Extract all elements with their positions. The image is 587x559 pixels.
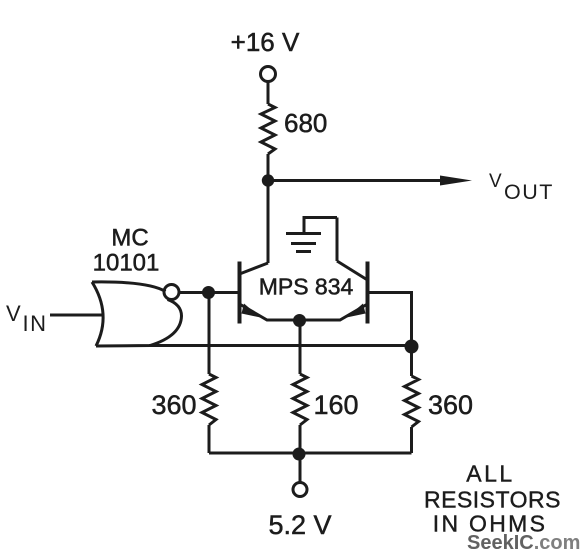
svg-text:360: 360 (428, 390, 473, 420)
svg-text:MPS 834: MPS 834 (259, 274, 354, 300)
svg-text:10101: 10101 (93, 250, 160, 277)
svg-text:OUT: OUT (504, 180, 554, 204)
svg-text:ALL: ALL (466, 461, 514, 487)
svg-text:160: 160 (314, 390, 359, 420)
svg-text:V: V (6, 301, 21, 326)
svg-text:+16 V: +16 V (231, 27, 300, 57)
svg-text:IN: IN (23, 311, 48, 336)
svg-text:680: 680 (284, 108, 327, 138)
svg-text:5.2 V: 5.2 V (268, 510, 331, 540)
svg-text:SeekIC.com: SeekIC.com (467, 532, 580, 554)
svg-text:RESISTORS: RESISTORS (424, 487, 561, 513)
svg-text:V: V (489, 171, 502, 192)
svg-text:MC: MC (111, 225, 148, 252)
svg-text:360: 360 (151, 390, 196, 420)
